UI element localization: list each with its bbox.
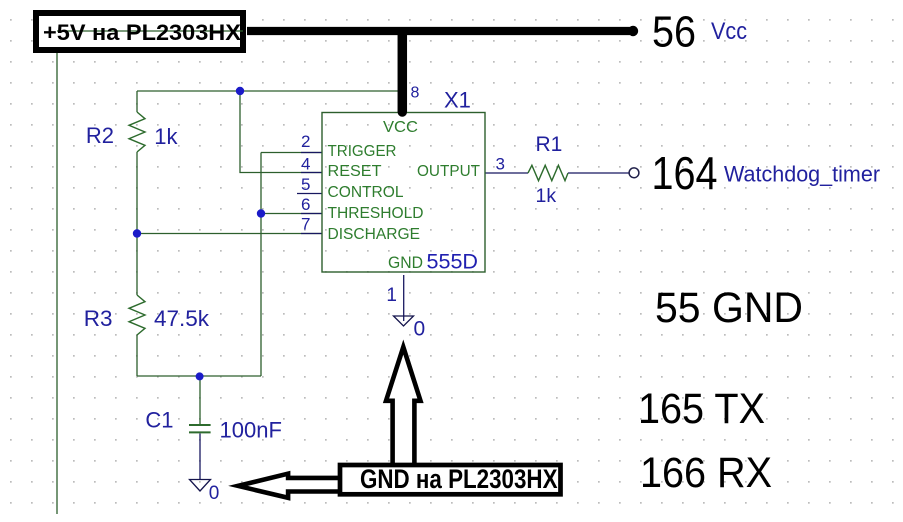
svg-text:X1: X1 [444, 88, 471, 113]
svg-text:2: 2 [301, 132, 310, 151]
svg-text:100nF: 100nF [220, 418, 282, 443]
svg-text:VCC: VCC [383, 119, 418, 136]
svg-text:0: 0 [414, 318, 426, 341]
svg-text:Vcc: Vcc [711, 18, 747, 45]
svg-text:GND на PL2303HX: GND на PL2303HX [360, 464, 558, 494]
svg-text:1k: 1k [154, 124, 178, 149]
svg-text:R1: R1 [536, 133, 563, 156]
svg-text:7: 7 [301, 215, 310, 234]
svg-text:GND: GND [388, 253, 423, 272]
svg-text:3: 3 [496, 155, 505, 174]
svg-text:164: 164 [652, 147, 718, 199]
svg-text:TRIGGER: TRIGGER [328, 143, 397, 160]
svg-text:R2: R2 [86, 123, 114, 148]
svg-text:0: 0 [209, 483, 220, 504]
svg-text:RESET: RESET [328, 163, 382, 180]
svg-text:+5V на PL2303HX: +5V на PL2303HX [43, 20, 241, 45]
svg-text:1k: 1k [536, 185, 557, 207]
svg-text:DISCHARGE: DISCHARGE [328, 226, 421, 243]
svg-text:56: 56 [652, 8, 696, 57]
svg-text:R3: R3 [84, 306, 113, 331]
svg-text:165 TX: 165 TX [638, 385, 765, 433]
svg-text:55 GND: 55 GND [655, 284, 803, 332]
svg-text:C1: C1 [145, 408, 173, 433]
svg-text:CONTROL: CONTROL [328, 184, 404, 201]
svg-text:8: 8 [411, 85, 420, 102]
svg-text:5: 5 [301, 175, 310, 194]
svg-text:THRESHOLD: THRESHOLD [328, 205, 424, 222]
svg-text:6: 6 [301, 195, 310, 214]
svg-text:555D: 555D [427, 250, 479, 274]
svg-text:4: 4 [301, 155, 310, 174]
svg-text:Watchdog_timer: Watchdog_timer [724, 162, 880, 187]
svg-text:OUTPUT: OUTPUT [417, 163, 480, 180]
svg-text:1: 1 [386, 285, 397, 306]
svg-text:166 RX: 166 RX [640, 449, 772, 497]
svg-text:47.5k: 47.5k [154, 306, 210, 331]
